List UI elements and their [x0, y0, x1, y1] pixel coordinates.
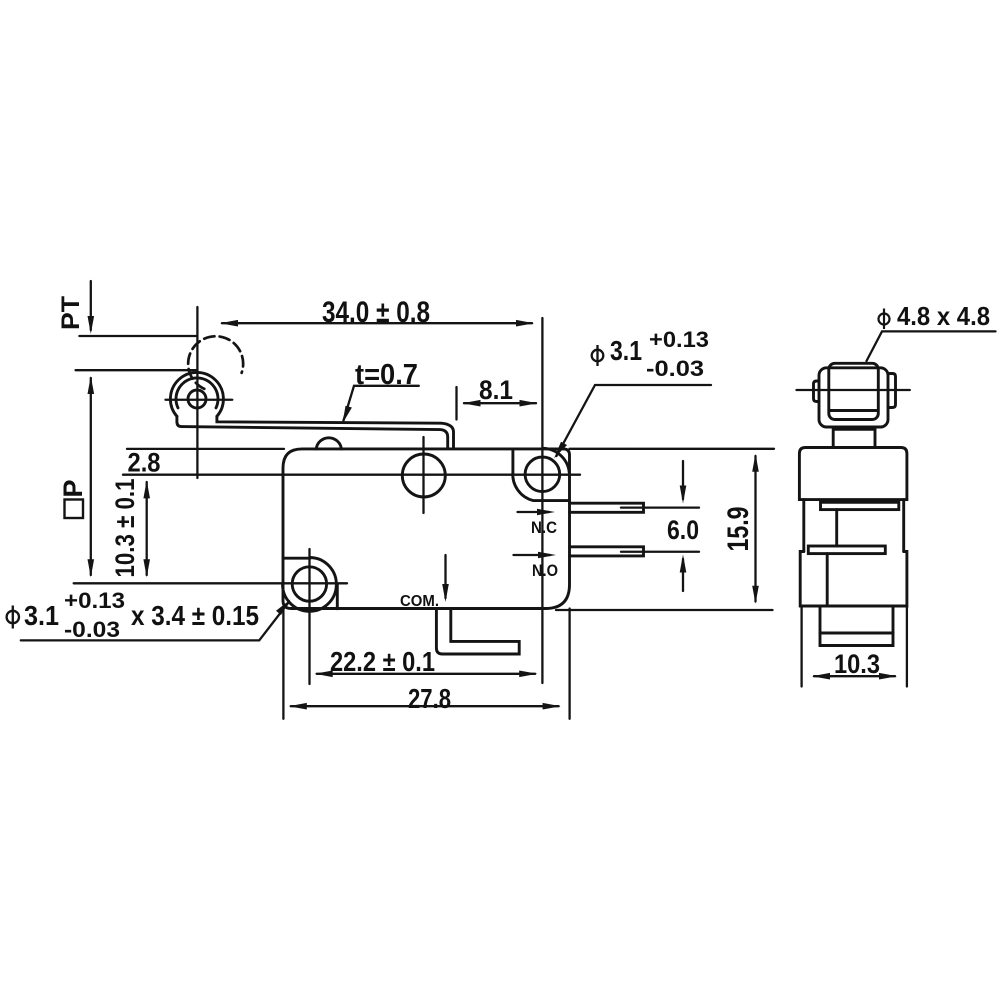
dim 22.2 line — [317, 673, 536, 675]
side bottom block inner line — [820, 632, 893, 635]
side middle section — [804, 500, 904, 552]
arrow 27.8 left — [289, 703, 307, 710]
side axle tab left — [814, 381, 820, 402]
boss around bottom-left hole — [283, 557, 310, 560]
centerline roller vertical — [196, 307, 198, 478]
dim 15.9 line — [754, 456, 756, 602]
dim 34.0 line — [222, 322, 532, 324]
N.O terminal — [570, 547, 644, 556]
hole centerline horizontal — [123, 474, 580, 476]
side view extension right — [906, 606, 908, 687]
free position line — [79, 335, 197, 337]
terminal extension lower — [644, 551, 699, 553]
terminal extension upper — [644, 506, 699, 508]
N.C arrow line — [518, 511, 550, 513]
arrow 6.0 up — [680, 555, 687, 573]
svg-text:-0.03: -0.03 — [64, 617, 120, 642]
arrow 15.9 up — [752, 454, 759, 472]
dim 6.0 upper arrow — [682, 461, 684, 499]
arrow 22.2 right — [519, 671, 537, 678]
arrow N.O right — [538, 552, 556, 559]
svg-text:15.9: 15.9 — [722, 507, 755, 552]
body top extension right — [570, 448, 775, 450]
side view extension left — [800, 606, 802, 687]
svg-text:4.8 x 4.8: 4.8 x 4.8 — [897, 301, 990, 331]
svg-text:-0.03: -0.03 — [646, 356, 704, 381]
body right edge extension — [568, 609, 570, 719]
arrow t=0.7 leader — [343, 406, 352, 424]
arrow 15.9 down — [752, 586, 759, 604]
side top bar — [821, 502, 899, 509]
body top extension left — [127, 448, 284, 450]
svg-text:N.C: N.C — [531, 518, 557, 537]
arrow 10.3 up — [143, 480, 150, 498]
8.1 extension tick — [455, 387, 457, 420]
side axle tab right — [888, 374, 896, 408]
svg-text:10.3: 10.3 — [834, 649, 880, 679]
svg-text:8.1: 8.1 — [479, 375, 513, 405]
lever arm upper edge — [217, 416, 454, 448]
arrow 6.0 down — [680, 486, 687, 504]
arrow 10.3 side left — [812, 673, 830, 680]
side head section — [799, 448, 907, 500]
side stem — [833, 427, 875, 448]
svg-text:6.0: 6.0 — [667, 515, 699, 545]
svg-text:+0.13: +0.13 — [64, 588, 125, 613]
dim 27.8 line — [291, 705, 559, 707]
svg-text:22.2 ± 0.1: 22.2 ± 0.1 — [330, 646, 435, 677]
bottom-left hole vertical crosshair — [308, 549, 310, 684]
right mounting hole — [525, 457, 560, 492]
dim 10.3 side line — [814, 675, 895, 677]
dim P line — [90, 378, 92, 575]
side roller centerline — [797, 389, 910, 391]
boss around top-right hole — [513, 449, 570, 501]
roller top line — [76, 369, 196, 371]
phi3.1 top leader — [557, 385, 712, 456]
lever arm lower edge — [177, 416, 448, 448]
phi4.8 leader — [867, 331, 996, 361]
arrow 8.1 right — [520, 400, 538, 407]
N.C terminal — [570, 503, 644, 512]
dim PT arrow line — [90, 281, 92, 330]
arrow 27.8 right — [543, 703, 561, 710]
side mold connector — [835, 510, 838, 546]
arrow phi3.1 top leader — [554, 442, 567, 459]
arrow COM down — [442, 584, 449, 602]
svg-text:3.1: 3.1 — [24, 600, 59, 631]
plunger bump on body top — [316, 438, 341, 449]
side lever bracket — [819, 368, 888, 427]
roller crosshair horizontal — [166, 399, 233, 401]
15.9 bottom extension — [556, 609, 773, 611]
side split line — [826, 554, 829, 606]
svg-text:10.3 ± 0.1: 10.3 ± 0.1 — [110, 479, 140, 578]
vertical line through right hole — [541, 318, 543, 683]
bottom hole centerline / seat line — [74, 582, 347, 584]
arrow 10.3 down — [143, 559, 150, 577]
phi glyph top — [592, 345, 604, 366]
side roller inner line — [830, 409, 878, 412]
arrow P up — [88, 376, 95, 394]
arrow PT down — [88, 316, 95, 334]
square symbol for P — [65, 500, 84, 519]
svg-text:PT: PT — [57, 296, 85, 330]
roller inner circle arc — [176, 378, 218, 408]
dim 10.3 line — [146, 482, 148, 575]
arrow N.C right — [537, 509, 555, 516]
body left edge extension — [282, 609, 284, 719]
N.O arrow line — [514, 554, 551, 556]
svg-text:P: P — [58, 479, 88, 497]
svg-text:3.1: 3.1 — [610, 335, 642, 366]
arrow 10.3 side right — [879, 673, 897, 680]
svg-text:COM.: COM. — [400, 593, 439, 610]
svg-text:+0.13: +0.13 — [649, 327, 709, 352]
body outline (front view switch case) — [283, 449, 570, 609]
arrow P down — [88, 559, 95, 577]
COM leader arrow line — [444, 555, 446, 598]
svg-text:27.8: 27.8 — [408, 683, 451, 714]
svg-text:t=0.7: t=0.7 — [355, 359, 418, 391]
roller outer circle — [170, 372, 223, 416]
phi3.1 bottom leader — [21, 602, 289, 641]
arrow 8.1 left — [463, 400, 481, 407]
arrow 34.0 left — [220, 320, 238, 327]
side roller — [829, 363, 879, 419]
bottom-left hole — [292, 567, 326, 601]
middle mounting hole — [402, 454, 445, 497]
svg-text:2.8: 2.8 — [128, 448, 161, 478]
svg-text:34.0 ± 0.8: 34.0 ± 0.8 — [322, 296, 430, 329]
dim 6.0 lower arrow — [682, 559, 684, 591]
roller hub — [188, 390, 206, 408]
side bottom bar — [808, 546, 885, 554]
svg-text:x 3.4 ± 0.15: x 3.4 ± 0.15 — [131, 600, 259, 631]
side bottom section — [800, 552, 907, 607]
t=0.7 leader — [344, 386, 419, 421]
middle hole vertical crosshair — [422, 437, 424, 513]
side bottom block — [820, 606, 893, 646]
COM terminal (L-shape) — [436, 609, 519, 655]
arrow 22.2 left — [315, 671, 333, 678]
roller dashed (free position) — [188, 336, 243, 389]
arrow phi3.1 bottom leader — [276, 600, 291, 616]
arrow 34.0 right — [516, 320, 534, 327]
svg-text:N.O: N.O — [532, 561, 558, 580]
dim 8.1 line — [464, 402, 536, 404]
